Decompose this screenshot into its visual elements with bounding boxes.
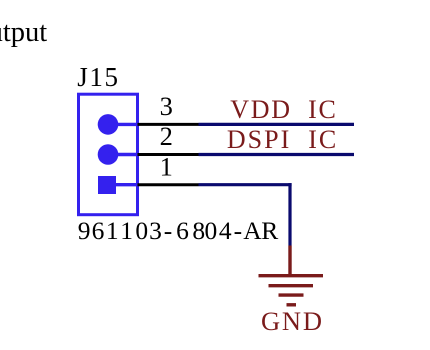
net wire DSPI IC (navy segment) [199,153,355,156]
svg-text:GND: GND [261,306,324,336]
ground symbol bar 3 [279,293,304,296]
ground symbol stem [288,246,291,277]
svg-text:961103-6804-AR: 961103-6804-AR [78,216,279,245]
ground symbol bar 2 [269,284,314,287]
svg-text:J15: J15 [77,62,119,92]
connector J15 body [79,94,138,215]
svg-text:3: 3 [160,91,173,121]
pin 1 wire to ground (navy horizontal segment) [199,183,292,186]
pin 2 wire (black segment) [138,153,199,156]
pin 1 wire (black segment) [138,183,199,186]
pin 3 stub wire [108,123,139,126]
ground symbol bar 1 [259,274,324,277]
svg-text:DSPI IC: DSPI IC [227,125,338,154]
ground symbol bar 4 [287,303,297,306]
pin 2 circle [98,144,119,165]
pin 1 square [98,176,116,194]
pin 3 wire (black segment) [138,123,199,126]
pin 2 stub wire [108,153,139,156]
svg-text:VDD IC: VDD IC [230,95,337,124]
pin 1 stub wire [107,183,139,186]
pin 3 circle [98,114,119,135]
pin 1 wire to ground (navy vertical segment) [288,183,291,245]
svg-text:utput: utput [0,17,47,48]
net wire VDD IC (navy segment) [199,123,355,126]
